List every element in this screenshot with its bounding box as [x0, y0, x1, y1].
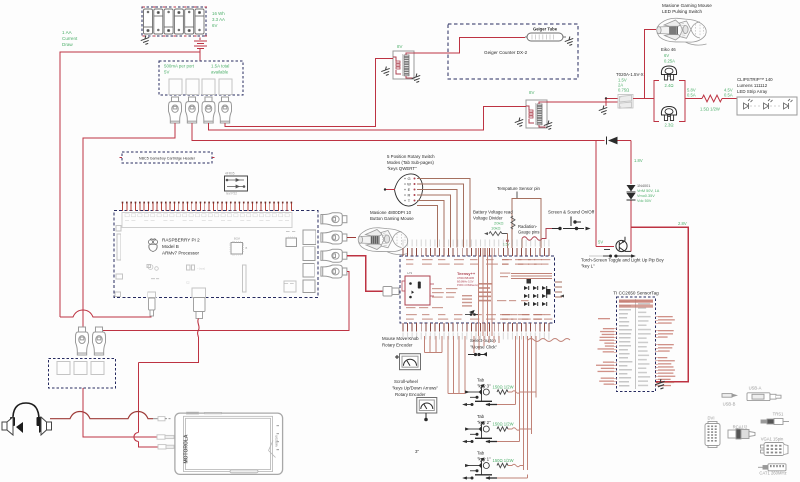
sensortag left pin labels: [603, 328, 614, 329]
wire hub port2 long to diode D1: [192, 123, 605, 141]
link switch to transistor contacts: [589, 255, 603, 257]
svg-text:CLIPSTRIP™ 140: CLIPSTRIP™ 140: [737, 77, 773, 82]
ground (T1 left): [380, 66, 391, 77]
ground (sensortag): [654, 378, 666, 390]
rotary encoder RE2: [417, 398, 437, 414]
pi small parts bottom: [148, 265, 153, 270]
svg-text:"keys QWERT": "keys QWERT": [387, 166, 417, 171]
wire pi usb2 to 4800 mouse: [347, 237, 356, 239]
NBC5 Gameboy Cartridge Header: [122, 152, 212, 163]
svg-text:2.4Ω: 2.4Ω: [665, 83, 674, 88]
sensortag interior texture: [635, 299, 637, 389]
svg-text:Modes (Tab Sub-pages): Modes (Tab Sub-pages): [387, 160, 434, 165]
rotary stub: [385, 189, 395, 191]
svg-text:3": 3": [415, 449, 419, 454]
pushbutton contacts under Q1: [603, 250, 635, 258]
teensy pin label texture top: [406, 259, 413, 260]
svg-text:VGA1 15pin: VGA1 15pin: [761, 437, 784, 442]
svg-text:2.8V: 2.8V: [678, 221, 687, 226]
wire pi usb3 to teensy usb: [347, 256, 383, 292]
pi CPU: [231, 242, 243, 254]
battery symbol: [194, 38, 207, 49]
wire hdmi down to phone branch: [198, 319, 200, 338]
svg-text:Model B: Model B: [162, 244, 179, 249]
GPIO header block: [122, 213, 292, 228]
svg-text:BCM: BCM: [234, 237, 240, 241]
svg-text:Geiger Counter DX-2: Geiger Counter DX-2: [484, 50, 528, 55]
USB hub 2: [49, 359, 116, 389]
key wire bundle verticals: [515, 336, 517, 405]
wire vertical right 631: [630, 141, 632, 185]
headphone wire to phone: [50, 412, 153, 419]
wire phone feed down: [137, 363, 139, 433]
svg-text:TI CC2650 SensorTag: TI CC2650 SensorTag: [613, 291, 659, 296]
wire hub port1 down-left: [83, 123, 175, 327]
wire 2.8V to sensortag: [631, 227, 688, 381]
svg-text:L/r9: L/r9: [407, 271, 413, 275]
junction dot: [606, 98, 618, 100]
diode D1: [608, 137, 618, 145]
svg-text:500mA per port: 500mA per port: [164, 64, 195, 69]
wire hub port3 to transformer T2: [209, 107, 490, 130]
ground (battery): [140, 35, 151, 46]
speaker left: [2, 417, 13, 435]
svg-text:Masione 4800DPI 10: Masione 4800DPI 10: [370, 210, 412, 215]
teensy right diode grid: [524, 286, 547, 306]
screen sound toggle switch: [552, 217, 589, 230]
gaming mouse (left): [358, 228, 408, 255]
USB plug J1 into hub port1: [169, 97, 182, 123]
pi hdmi down: [194, 298, 206, 319]
pi audio jack down: [149, 298, 156, 316]
temp sensor wires: [512, 199, 541, 249]
teensy through wires: [478, 248, 480, 336]
gaming mouse (top right): [657, 18, 707, 45]
resistor R-LED 1.5 ohm: [702, 95, 722, 102]
svg-text:Eiko 46: Eiko 46: [661, 47, 676, 52]
svg-text:6V: 6V: [664, 53, 669, 58]
svg-text:PJRC.COM/teensy: PJRC.COM/teensy: [457, 283, 480, 287]
svg-text:150Ω 1/2W: 150Ω 1/2W: [493, 422, 514, 427]
headphone drivers: [16, 422, 23, 433]
teensy top pins: [402, 248, 404, 256]
svg-text:2.3Ω: 2.3Ω: [665, 123, 674, 128]
sensortag right pin labels: [658, 316, 673, 317]
svg-text:0.5A: 0.5A: [687, 93, 696, 98]
Geiger Counter DX-2 module: [448, 24, 578, 79]
svg-text:Masione Gaming Mouse: Masione Gaming Mouse: [662, 3, 712, 8]
svg-text:Vdc 50V: Vdc 50V: [637, 199, 652, 203]
svg-text:8V: 8V: [397, 44, 402, 49]
svg-text:Rotary Encoder: Rotary Encoder: [382, 343, 413, 348]
teensy right pin stubs: [555, 281, 562, 283]
transistor Q1 torch toggle: [596, 245, 614, 247]
svg-text:TRS1: TRS1: [773, 412, 784, 417]
rotary encoder RE1: [400, 354, 421, 370]
sensortag top red band: [619, 300, 653, 303]
svg-text:B: B: [246, 246, 248, 250]
svg-text:Teensy++: Teensy++: [457, 271, 476, 276]
svg-text:Mouse Move Knob: Mouse Move Knob: [382, 336, 419, 341]
wire battery to hub: [199, 49, 201, 62]
teensy right component: [546, 289, 551, 295]
svg-text:Tempature Sensor pin: Tempature Sensor pin: [497, 186, 541, 191]
svg-text:G: G: [407, 176, 410, 181]
svg-text:5V: 5V: [164, 70, 169, 75]
wires teensy to encoder 1: [424, 336, 426, 353]
pi usb/eth ports: [303, 230, 316, 245]
divider node: [506, 239, 509, 242]
svg-text:LED Pulsing Switch: LED Pulsing Switch: [662, 9, 703, 14]
ground (regulator): [605, 99, 607, 107]
svg-text:USB-B: USB-B: [723, 402, 736, 407]
speaker right: [41, 417, 52, 435]
wire pi usb4 down to hub2 plug B: [101, 272, 349, 331]
svg-text:Scroll-wheel: Scroll-wheel: [394, 379, 418, 384]
svg-text:CAT1 260MHz: CAT1 260MHz: [759, 471, 786, 476]
wire hub port4 to transformer T1: [225, 59, 381, 127]
pi right usb plugs: [321, 213, 347, 226]
wire mouse to regulator node: [645, 30, 656, 99]
ground (T2 right): [543, 120, 554, 131]
svg-text:8V: 8V: [529, 90, 534, 95]
wires teensy to encoder 2: [447, 336, 449, 394]
wire resistor to LED strip: [722, 98, 737, 100]
svg-text:C2: C2: [186, 281, 190, 285]
teensy inner pushbutton: [465, 311, 478, 316]
svg-text:1 AA: 1 AA: [62, 30, 73, 35]
svg-text:Torch-Screen Toggle and Light: Torch-Screen Toggle and Light Up Pip Boy: [581, 258, 664, 263]
resistor divider horizontal: [489, 232, 502, 236]
wire T2 right to regulator: [547, 101, 618, 103]
rotary switch SW1: [395, 174, 423, 206]
teensy interior: [405, 276, 430, 305]
lamp parallel box: [654, 80, 685, 121]
phone jack plug 1: [153, 417, 171, 421]
rotary switch wires to teensy: [417, 179, 470, 248]
Raspberry Pi 2 board: [114, 211, 318, 298]
teensy pin label texture bottom: [406, 314, 417, 315]
svg-text:6V: 6V: [212, 23, 217, 28]
Teensy++ 2.0 board: [400, 256, 555, 323]
svg-text:Lumens 111112: Lumens 111112: [737, 83, 768, 88]
svg-text:Geiger Tube: Geiger Tube: [533, 27, 558, 32]
svg-text:LED Strip Array: LED Strip Array: [737, 89, 768, 94]
resistor divider vertical: [511, 216, 515, 229]
teensy center labels: [479, 283, 492, 285]
svg-text:Draw: Draw: [62, 42, 73, 47]
phone jack plug 2: [157, 435, 174, 439]
svg-text:available: available: [211, 70, 229, 75]
encoder ground mark: [425, 413, 428, 421]
svg-text:VrrM 50V, 1A: VrrM 50V, 1A: [637, 189, 660, 193]
wire T1 right to geiger: [414, 38, 525, 54]
svg-text:Vmo0.35V: Vmo0.35V: [637, 194, 655, 198]
battery holder BT1 (6x AA): [142, 7, 206, 36]
opto-isolator U3: [224, 176, 247, 191]
wire hub2 to phone mid jack: [83, 388, 157, 437]
ground (T1 right): [411, 73, 422, 84]
teensy bottom pins: [402, 323, 404, 332]
USB hub U-HUB1: [159, 61, 243, 95]
Motorola Droid phone: [175, 413, 283, 474]
teensy mini-usb plug: [383, 287, 399, 297]
svg-text:W: W: [407, 182, 411, 187]
ground (T2 left): [514, 117, 525, 128]
svg-text:5V: 5V: [598, 240, 603, 245]
svg-text:MOTOROLA: MOTOROLA: [183, 434, 189, 463]
wire vertical left 596: [595, 141, 597, 247]
svg-text:1.5Ω 1/2W: 1.5Ω 1/2W: [700, 107, 720, 112]
svg-text:0.75Ω: 0.75Ω: [618, 88, 629, 93]
svg-text:T020A-1.5V-X: T020A-1.5V-X: [616, 72, 644, 77]
USB plug J2 into hub port2: [186, 97, 199, 123]
svg-text:150Ω 1/2W: 150Ω 1/2W: [493, 458, 514, 463]
svg-text:150Ω 1/2W: 150Ω 1/2W: [493, 385, 514, 390]
headphones: [13, 403, 39, 421]
svg-text:R: R: [408, 193, 411, 198]
svg-text:"keys Up/Down Arrows": "keys Up/Down Arrows": [392, 386, 439, 391]
wire 1AA branch: [60, 52, 200, 317]
diode D2 1N4001 pair: [627, 185, 636, 192]
svg-text:Rotary Encoder: Rotary Encoder: [395, 392, 426, 397]
svg-text:1.5V: 1.5V: [503, 243, 510, 247]
svg-text:10kΩ: 10kΩ: [491, 226, 500, 231]
wire lampbox to resistor: [685, 98, 702, 100]
svg-text:Tab: Tab: [477, 414, 485, 419]
bundle wiggle: [528, 339, 570, 342]
svg-text:Tab: Tab: [477, 378, 485, 383]
USB plug J3 into hub port3: [202, 97, 215, 123]
svg-text:Tab: Tab: [477, 451, 485, 456]
svg-text:8/16MHz 5.5V: 8/16MHz 5.5V: [457, 280, 474, 284]
svg-text:USB-A: USB-A: [749, 386, 762, 391]
svg-text:ARMv7 Processor: ARMv7 Processor: [162, 251, 199, 256]
svg-text:Battery Voltage read: Battery Voltage read: [473, 210, 513, 215]
teensy interior extra texture: [432, 288, 442, 289]
ground (geiger): [564, 36, 575, 47]
GPIO pins: [122, 203, 124, 211]
svg-text:~ (xxx): ~ (xxx): [197, 267, 205, 271]
svg-text:0.25A: 0.25A: [664, 59, 675, 64]
svg-text:1N4001: 1N4001: [637, 184, 650, 188]
svg-text:Current: Current: [62, 36, 78, 41]
svg-text:E: E: [408, 187, 411, 192]
pi ethernet chip: [286, 238, 297, 247]
teensy reset label lines: [511, 273, 552, 275]
svg-text:Radiation-: Radiation-: [518, 224, 538, 229]
USB plug J4 into hub port4: [219, 97, 232, 123]
svg-text:Button Gaming Mouse: Button Gaming Mouse: [370, 216, 414, 221]
svg-text:"key L": "key L": [581, 264, 595, 269]
svg-text:Screen & Sound On/Off: Screen & Sound On/Off: [548, 210, 595, 215]
geiger tube GT1: [525, 33, 566, 41]
svg-text:AT90USB1286: AT90USB1286: [457, 276, 475, 280]
select button: [468, 353, 487, 356]
wire regulator to lamp box: [633, 98, 654, 100]
svg-text:rev:P22: rev:P22: [226, 192, 237, 196]
svg-text:1.5A total: 1.5A total: [211, 64, 229, 69]
svg-text:3.3 AA: 3.3 AA: [212, 17, 225, 22]
svg-text:5 Position Rotary Switch: 5 Position Rotary Switch: [387, 154, 435, 159]
svg-text:NBC5 Gameboy Cartridge Header: NBC5 Gameboy Cartridge Header: [139, 156, 196, 160]
svg-text:0.5A: 0.5A: [724, 93, 733, 98]
svg-text:Gauge pins: Gauge pins: [518, 230, 539, 235]
USB-B connector icon: [722, 394, 737, 398]
svg-text:DVI: DVI: [708, 416, 715, 421]
svg-text:16 Wh: 16 Wh: [212, 11, 225, 16]
svg-text:1.8V: 1.8V: [634, 158, 643, 163]
svg-text:4FR05: 4FR05: [225, 172, 235, 176]
USB plug into hub2 port A: [76, 327, 89, 355]
lamp L2 Eiko 46: [661, 107, 676, 121]
USB plug into hub2 port B: [93, 327, 106, 355]
phone jack plug 3: [158, 445, 174, 449]
wire 1AA to pi jack with hop: [60, 310, 151, 317]
wires teensy to select button: [473, 336, 475, 353]
raspberry logo: [148, 239, 157, 252]
svg-text:RASPBERRY PI 2: RASPBERRY PI 2: [162, 238, 200, 243]
radiation gauge coil: [522, 237, 542, 241]
